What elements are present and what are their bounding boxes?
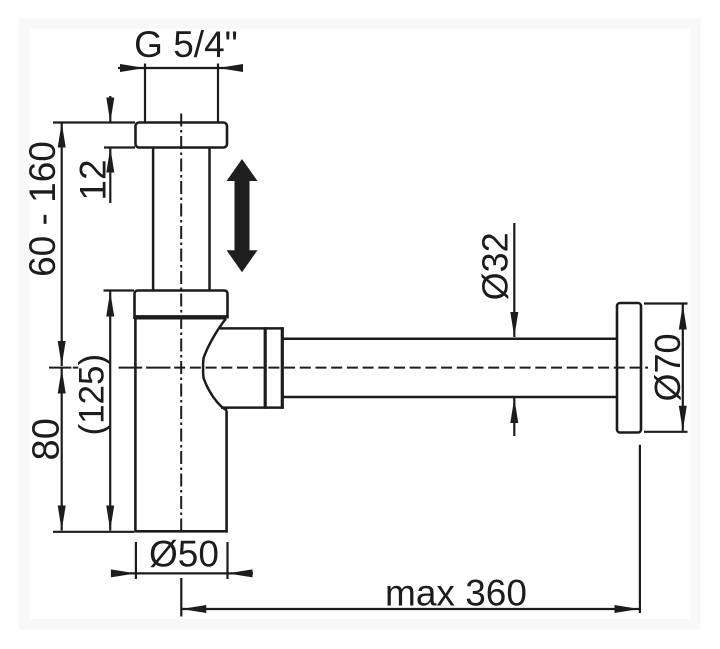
dimension O70: bottom extension line <box>644 431 688 433</box>
trap body top flange <box>135 291 228 320</box>
dimension O50: left arrow <box>111 569 136 577</box>
dimension 80: bottom arrow <box>58 506 66 531</box>
dimension max 360: right extension line <box>639 445 641 613</box>
centerline horizontal: long dash left of body centerline <box>146 367 170 369</box>
dimension 12: upper arrow <box>106 98 114 123</box>
dimension 60-160: top arrow <box>58 123 66 148</box>
dimension O50: right arrow <box>228 569 253 577</box>
trap body right wall upper <box>225 319 228 327</box>
dimension O50: right extension line <box>226 542 228 579</box>
svg-text:G 5/4": G 5/4" <box>134 24 238 65</box>
svg-text:(125): (125) <box>73 354 112 436</box>
dimension 80: top arrow <box>58 369 66 394</box>
svg-text:80: 80 <box>26 418 68 460</box>
dimension 80: bottom extension line <box>53 531 134 533</box>
dimension O70: dim line <box>682 305 684 431</box>
dimension 12: top extension line <box>53 121 135 123</box>
dimension O70: top arrow <box>679 305 687 330</box>
centerline vertical of trap body <box>180 114 182 532</box>
dimension O70: top extension line <box>644 302 688 304</box>
centerline horizontal: solid segment at dim crossing <box>49 367 71 369</box>
dimension 12: upper arrow line <box>109 96 111 123</box>
svg-text:12: 12 <box>73 159 114 200</box>
outlet pipe top wall <box>284 337 619 340</box>
dimension G 5/4 inch: dim line <box>118 67 243 69</box>
dimension 125: bottom arrow <box>106 506 114 531</box>
dimension 80: dim line <box>61 369 63 531</box>
outlet nut ring left bar <box>264 327 267 409</box>
dimension G 5/4 inch: right extension line <box>217 64 219 122</box>
height adjustability double arrow <box>227 159 258 272</box>
svg-text:60 - 160: 60 - 160 <box>22 141 63 277</box>
dimension 12: lower arrow line <box>109 148 111 204</box>
outlet nut dome: white mask <box>203 319 266 411</box>
dimension max 360: dim line <box>181 608 639 610</box>
dimension 60-160: dim line <box>61 123 63 367</box>
dimension 12: bottom extension line <box>104 146 135 148</box>
dimension 125: top extension line <box>104 289 135 291</box>
centerline horizontal of outlet pipe <box>174 367 648 369</box>
dimension G 5/4 inch: left arrow <box>120 64 145 72</box>
vertical inlet pipe left wall <box>152 148 155 291</box>
outlet nut bottom edge <box>221 406 284 409</box>
wall rosette flange <box>617 303 641 433</box>
centerline horizontal: short dash before label <box>73 367 79 369</box>
svg-text:max 360: max 360 <box>385 573 527 614</box>
trap body right wall lower <box>225 409 228 532</box>
vertical inlet pipe right wall <box>208 148 211 291</box>
dimension O32: upper arrow <box>510 312 518 337</box>
trap body bottom <box>134 530 228 533</box>
dimension max 360: left extension line <box>180 578 182 617</box>
dimension max 360: right arrow <box>615 605 640 613</box>
top flange nut <box>136 123 228 148</box>
outlet nut dome curve <box>203 319 227 411</box>
dimension G 5/4 inch: left extension line <box>144 64 146 122</box>
dimension 60-160: bottom arrow <box>58 341 66 366</box>
centerline horizontal: solid segment at body wall crossing <box>119 367 143 369</box>
dimension G 5/4 inch: right arrow <box>218 64 243 72</box>
trap body top flange thick bottom edge <box>134 315 228 319</box>
dimension O32: lower arrow line <box>513 398 515 436</box>
dimension 125: top arrow <box>106 292 114 317</box>
trap body left wall <box>134 319 137 531</box>
dimension max 360: left arrow <box>181 605 206 613</box>
dimension O50: dim line <box>112 572 253 574</box>
dimension 12: lower arrow <box>106 148 114 173</box>
svg-text:Ø32: Ø32 <box>475 232 516 300</box>
dimension O50: left extension line <box>135 542 137 579</box>
outlet pipe bottom wall <box>284 396 619 399</box>
outlet nut ring right bar <box>281 327 284 409</box>
svg-text:Ø50: Ø50 <box>149 534 219 575</box>
svg-text:Ø70: Ø70 <box>647 333 688 401</box>
outlet nut top edge <box>220 327 284 330</box>
dimension 125: dim line <box>109 292 111 531</box>
dimension O32: upper arrow line <box>513 223 515 337</box>
dimension O70: bottom arrow <box>679 406 687 431</box>
dimension O32: lower arrow <box>510 398 518 423</box>
